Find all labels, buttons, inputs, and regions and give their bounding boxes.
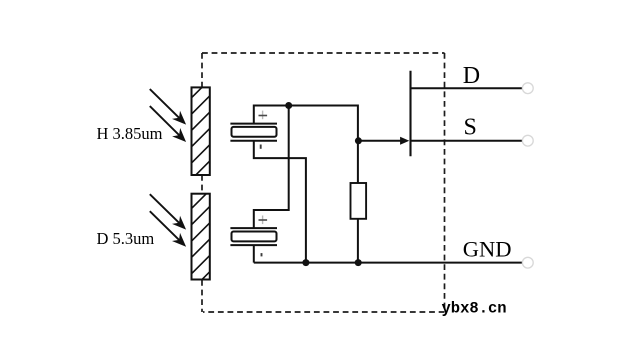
svg-text:D: D bbox=[463, 63, 480, 89]
svg-text:ybx8.cn: ybx8.cn bbox=[442, 299, 507, 317]
svg-text:H 3.85um: H 3.85um bbox=[97, 124, 163, 143]
svg-text:S: S bbox=[464, 115, 477, 141]
svg-text:D 5.3um: D 5.3um bbox=[97, 229, 155, 248]
svg-text:GND: GND bbox=[463, 237, 512, 262]
